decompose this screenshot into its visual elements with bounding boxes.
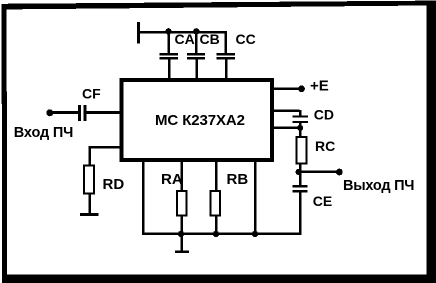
svg-text:CD: CD	[314, 106, 334, 122]
svg-text:RA: RA	[161, 171, 183, 188]
svg-text:RC: RC	[315, 138, 335, 154]
svg-text:CA: CA	[175, 31, 195, 47]
svg-text:CB: CB	[200, 31, 220, 47]
svg-text:МС К237ХА2: МС К237ХА2	[155, 112, 245, 129]
svg-text:Вход ПЧ: Вход ПЧ	[14, 125, 74, 141]
svg-text:+Е: +Е	[310, 78, 329, 95]
svg-text:CE: CE	[313, 193, 332, 209]
svg-text:RD: RD	[103, 176, 125, 193]
svg-text:CC: CC	[236, 31, 256, 47]
svg-text:RB: RB	[227, 171, 249, 188]
svg-text:Выход ПЧ: Выход ПЧ	[343, 178, 415, 194]
svg-text:CF: CF	[82, 86, 101, 102]
